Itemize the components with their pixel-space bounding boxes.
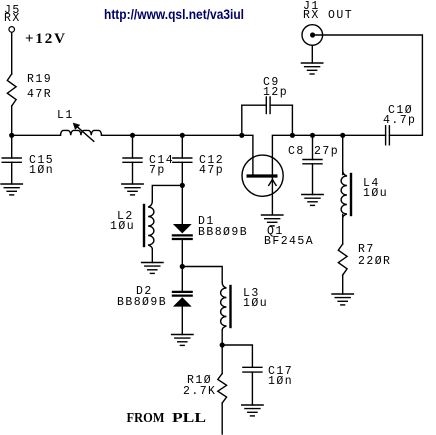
inductor L2: [144, 202, 154, 250]
wire C10 to J1: [313, 35, 422, 135]
ground (C15): [1, 184, 22, 195]
ground (C14): [122, 184, 143, 195]
capacitor C14 plates: [123, 158, 142, 162]
resistor R19: [7, 74, 16, 106]
svg-text:12p: 12p: [263, 86, 288, 99]
wire varactor node to L3: [182, 267, 222, 283]
capacitor C10 plates: [386, 126, 390, 145]
ground (C17): [242, 405, 263, 416]
wire rail C8 to L4 node: [313, 134, 343, 136]
resistor R7: [338, 244, 347, 275]
svg-text:BB8Ø9B: BB8Ø9B: [117, 296, 167, 309]
svg-text:47p: 47p: [199, 164, 224, 177]
ground (L2): [142, 263, 163, 274]
diode D2 (varactor): [173, 267, 192, 335]
transistor Q1: [242, 135, 293, 214]
svg-text:4.7p: 4.7p: [383, 114, 416, 127]
wire node to C17: [222, 345, 252, 367]
wire J1 to ground: [311, 45, 313, 63]
wire rail C12 to C9 node: [182, 134, 242, 136]
svg-text:http://www.qsl.net/va3iul: http://www.qsl.net/va3iul: [104, 6, 244, 22]
wire R7 to ground: [342, 275, 344, 294]
wire L3 to node: [221, 330, 223, 345]
svg-text:1Øn: 1Øn: [268, 375, 293, 388]
ground (C8): [302, 195, 323, 206]
svg-text:J5: J5: [4, 4, 21, 17]
svg-text:1Øu: 1Øu: [110, 220, 135, 233]
ground (Q1): [262, 215, 283, 226]
svg-text:BB8Ø9B: BB8Ø9B: [198, 226, 248, 239]
wire rail C14 to C12: [133, 134, 183, 136]
inductor L4: [341, 171, 351, 219]
svg-text:27p: 27p: [314, 145, 339, 158]
wire R10 to FROM PLL: [221, 403, 223, 434]
capacitor C8 plates: [303, 160, 322, 164]
wire rail L4 node to C10: [343, 134, 386, 136]
svg-text:1Øu: 1Øu: [243, 297, 268, 310]
wire node to R10: [221, 345, 223, 374]
capacitor C9 plates: [266, 97, 270, 114]
capacitor C9: [242, 97, 293, 135]
ground (J1): [301, 63, 322, 74]
ground (R7): [332, 294, 353, 305]
ground (D2): [172, 335, 193, 346]
wire rail to C8 node: [292, 134, 312, 136]
inductor L3: [221, 283, 231, 331]
capacitor C14: [123, 135, 142, 184]
svg-text:FROM: FROM: [127, 410, 165, 425]
svg-text:+12V: +12V: [25, 31, 65, 47]
wire node to L2: [152, 185, 182, 201]
node between varactors: [180, 264, 185, 269]
wire L4 to R7: [342, 215, 344, 245]
svg-text:7p: 7p: [149, 164, 166, 177]
wire node to L4: [342, 135, 344, 174]
node L3 bottom: [220, 342, 225, 347]
capacitor C15 plates: [2, 158, 21, 162]
capacitor C17 plates: [243, 367, 262, 372]
svg-text:1Øn: 1Øn: [29, 164, 54, 177]
connector J5: [9, 27, 15, 33]
svg-text:PLL: PLL: [172, 410, 206, 425]
svg-text:R19: R19: [27, 73, 52, 86]
node C8 rail: [310, 133, 315, 138]
svg-text:RX OUT: RX OUT: [303, 9, 353, 22]
node varactor top: [180, 183, 185, 188]
wire R19 to left rail node: [11, 106, 13, 135]
inductor L1: [61, 123, 102, 141]
wire L2 to ground: [151, 249, 153, 263]
wire L1 to C14 node: [102, 134, 133, 136]
capacitor C12: [173, 135, 192, 185]
connector J1: [302, 25, 323, 46]
resistor R10: [218, 374, 227, 404]
svg-text:BF245A: BF245A: [264, 235, 314, 248]
wire rail to L1: [12, 134, 61, 136]
node L4 rail: [340, 133, 345, 138]
node C9 left: [239, 133, 244, 138]
node C9 right: [290, 133, 295, 138]
capacitor C15: [2, 135, 21, 184]
capacitor C12 plates: [173, 158, 192, 162]
svg-text:1Øu: 1Øu: [363, 187, 388, 200]
diode D1 (varactor): [173, 185, 192, 266]
svg-text:47R: 47R: [27, 88, 52, 101]
svg-text:2.7K: 2.7K: [183, 385, 216, 398]
wire C17 to ground: [251, 372, 253, 405]
wire J5 to R19: [11, 33, 13, 74]
svg-text:22ØR: 22ØR: [358, 255, 391, 268]
svg-text:C8: C8: [288, 145, 305, 158]
node left rail junction: [9, 133, 14, 138]
svg-text:L1: L1: [57, 109, 74, 122]
capacitor C8: [303, 135, 322, 194]
node C12 rail: [180, 133, 185, 138]
node C14 rail: [130, 133, 135, 138]
